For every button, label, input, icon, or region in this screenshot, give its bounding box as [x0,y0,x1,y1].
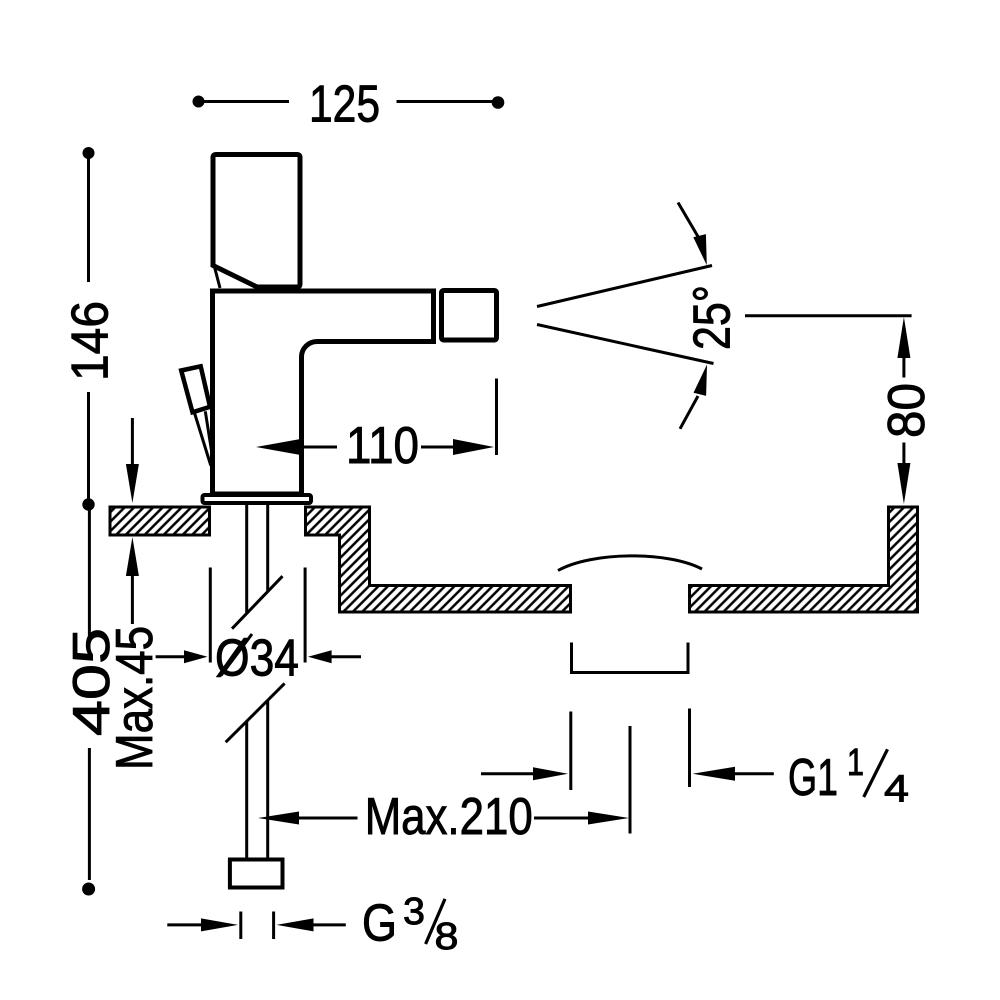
drain right extension line [688,709,691,788]
svg-text:G1: G1 [788,749,838,807]
svg-text:Ø34: Ø34 [215,630,299,688]
dimension 80: upper line [902,352,905,378]
dimension G 3/8: left tick [239,912,242,940]
spray angle lower leader [680,396,698,429]
dimension Max.210: left line [297,817,358,820]
dimension 125: right line [397,100,499,103]
dimension D34: right arrowhead [308,650,332,663]
svg-text:80: 80 [878,383,936,438]
dimension G 3/8: left arrowhead [201,918,238,931]
deck left slab (hatched) [110,507,210,535]
dimension 110: left line [301,446,338,449]
deck middle step section (hatched) [306,507,571,612]
dimension G 3/8: left line [167,923,203,926]
drain centerline [629,726,632,834]
dimension D34: phi slash extension [221,634,252,676]
aerator outlet [442,291,497,341]
svg-text:4: 4 [884,769,909,811]
svg-text:G: G [362,895,397,953]
dimension 80: up arrowhead [897,317,910,358]
dimension G 3/8: right arrowhead [277,918,314,931]
svg-text:Max.210: Max.210 [365,788,533,846]
deck right section with wall (hatched) [690,507,918,612]
dimension G 3/8: right tick [272,912,275,940]
svg-text:146: 146 [62,301,120,381]
dimension 110: right arrowhead [453,439,494,455]
dimension 146: top dot [83,147,95,159]
dimension 110: right extension line [495,379,498,456]
dimension G 3/8: fraction slash [426,899,445,944]
dimension Max.45: down arrowhead [126,464,139,503]
svg-text:110: 110 [346,417,419,475]
drain left extension line [569,712,572,791]
dimension G1 1/4: fraction slash [864,749,888,797]
supply pipe end nut [230,860,283,888]
svg-text:25°: 25° [684,285,742,350]
dimension 405: bottom dot [82,883,95,896]
dimension D34: left extension line [209,568,212,663]
spray angle lower line [537,325,714,364]
handle lever gap line [215,267,221,288]
svg-text:1: 1 [847,742,864,784]
dimension D34: right line [330,655,361,658]
dimension D34: left line [156,655,186,658]
dimension 110: left arrowhead [256,439,301,455]
dimension G1 1/4: right arrowhead [693,767,736,781]
dimension 125: left dot [193,96,205,108]
dimension G 3/8: right line [312,923,346,926]
lever stem line right [205,411,212,457]
bowl drain dome arc [558,556,702,571]
base plate [203,495,312,503]
dimension Max.45: up arrowhead [126,537,139,576]
dimension D34: left arrowhead [184,650,208,663]
dimension 405: upper line [88,505,91,640]
supply pipe upper right line [266,505,269,592]
dimension G1 1/4: left line [481,772,535,775]
svg-text:8: 8 [435,916,459,958]
dimension Max.45: upper leader line [131,418,134,468]
dimension G1 1/4: left arrowhead [533,767,568,780]
dimension 146/405: shared middle dot [82,498,94,510]
dimension 125: left line [199,100,290,103]
80 dimension reference line [745,314,912,317]
dimension Max.45: lower leader line [131,576,134,624]
lever paddle [181,366,210,412]
dimension Max.210: left arrowhead [258,812,299,825]
dimension Max.210: right line [534,817,590,820]
drain bracket [572,643,689,673]
faucet handle [213,155,300,288]
dimension 146: lower line [87,392,90,504]
supply pipe lower right line [266,700,269,860]
svg-text:125: 125 [309,76,380,134]
dimension 125: right dot [492,96,505,109]
dimension 80: down arrowhead [897,463,910,504]
spray angle upper arrowhead [693,234,707,265]
svg-text:Max.45: Max.45 [106,626,164,770]
dimension G1 1/4: right line [733,772,774,775]
pipe break diagonal upper [232,576,283,629]
pipe break diagonal lower [226,683,285,742]
svg-text:3: 3 [403,891,425,933]
supply pipe upper left line [245,505,248,614]
spray angle lower arrowhead [694,365,708,396]
dimension 80: lower line [902,443,905,467]
dimension Max.210: right arrowhead [588,812,629,825]
dimension 405: lower line [88,748,91,880]
supply pipe lower left line [245,721,248,860]
spray angle upper leader [678,203,700,241]
dimension D34: right extension line [304,568,307,663]
dimension 146: upper line [87,153,90,282]
faucet body and spout [213,291,434,494]
lever stem line left [195,413,211,466]
dimension 110: right line [421,446,453,449]
spray angle upper line [537,266,712,307]
